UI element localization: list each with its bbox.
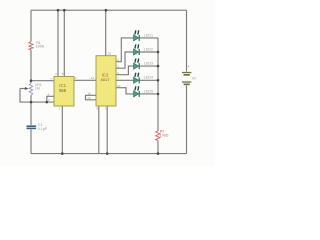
svg-text:LED1: LED1 [144,33,153,37]
svg-text:0.1µF: 0.1µF [38,127,48,131]
svg-text:9V: 9V [192,77,197,81]
svg-text:16: 16 [107,51,111,55]
svg-text:100Ω: 100Ω [160,134,169,138]
svg-text:1M: 1M [35,86,40,90]
svg-text:13: 13 [105,107,109,111]
svg-text:14: 14 [91,76,95,80]
svg-text:LED5: LED5 [144,89,153,93]
svg-text:15: 15 [88,92,92,96]
svg-text:+: + [187,65,189,69]
svg-text:4017: 4017 [101,77,111,82]
svg-text:555: 555 [59,88,67,93]
svg-text:10: 10 [117,84,121,88]
svg-text:100K: 100K [36,44,45,48]
svg-text:13: 13 [87,96,91,100]
svg-text:LED4: LED4 [144,76,153,80]
svg-text:LED3: LED3 [144,62,153,66]
svg-text:LED2: LED2 [144,47,153,51]
